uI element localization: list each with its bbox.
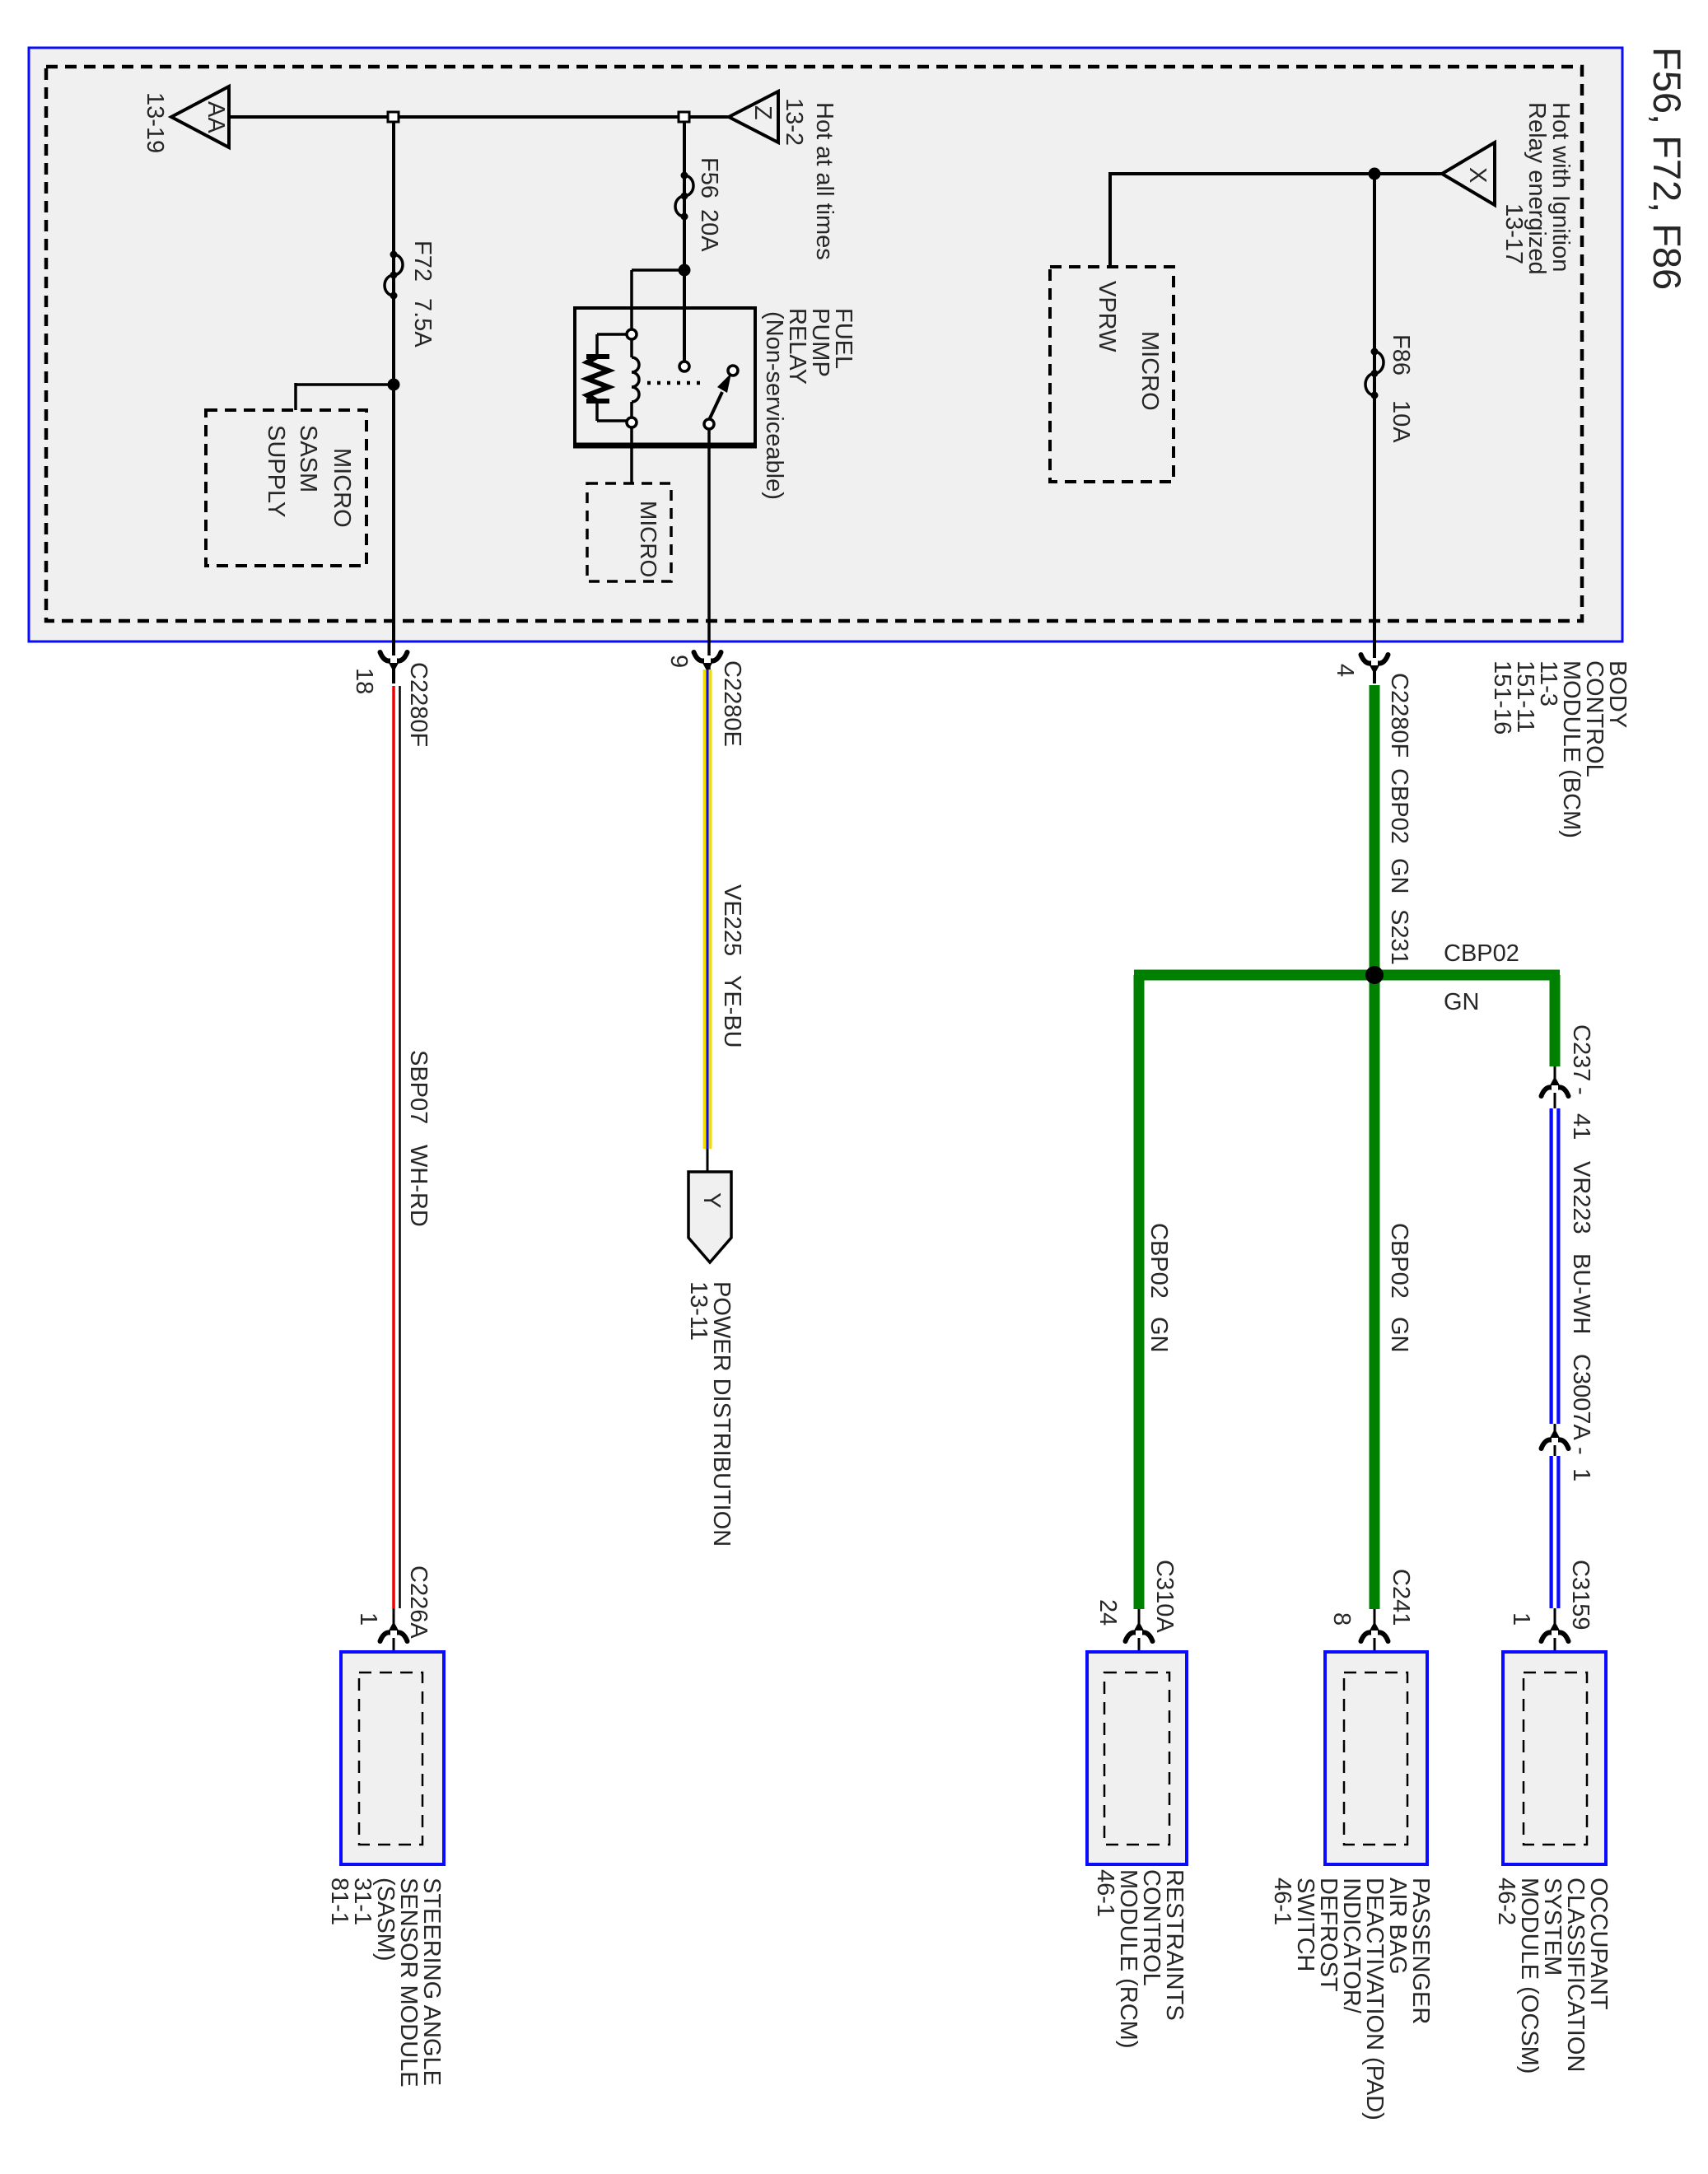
svg-text:F56, F72, F86: F56, F72, F86 [1645, 47, 1689, 290]
svg-text:C3007A: C3007A [1568, 1354, 1594, 1440]
wire CBP02 GN to C237 [1550, 975, 1561, 1066]
wire SBP07 WH-RD [394, 686, 432, 1672]
svg-text:C226A: C226A [405, 1565, 432, 1639]
module: STEERING ANGLE SENSOR MODULE (SASM) [341, 1652, 444, 1864]
fuse F86 10A [1365, 334, 1414, 443]
svg-text:13-11: 13-11 [685, 1281, 712, 1341]
module: PASSENGER AIR BAG DEACTIVATION (PAD) INDICATOR/DEFROST SWITCH [1325, 1652, 1427, 1864]
svg-text:GN: GN [1146, 1317, 1172, 1353]
svg-text:CBP02: CBP02 [1386, 1223, 1412, 1299]
svg-text:46-1: 46-1 [1092, 1869, 1118, 1917]
svg-text:13-19: 13-19 [142, 92, 168, 153]
svg-text:46-2: 46-2 [1493, 1878, 1519, 1925]
svg-text:SBP07: SBP07 [405, 1050, 432, 1124]
relay coil [627, 329, 639, 427]
junction (relay coil tap) [679, 264, 691, 277]
fuse F72 7.5A [385, 240, 436, 348]
MICRO (relay driver) box [587, 483, 671, 581]
wire: F56 branch down [683, 122, 686, 362]
svg-text:151-16: 151-16 [1489, 660, 1515, 735]
svg-text:MICRO: MICRO [329, 448, 355, 528]
svg-text:1: 1 [1508, 1612, 1534, 1626]
svg-text:VPRW: VPRW [1094, 281, 1120, 352]
svg-text:Y: Y [698, 1192, 725, 1208]
MICRO SASM SUPPLY box [206, 410, 366, 566]
module label SASM [326, 1878, 445, 2088]
wire VR223 BU-WH (upper) [1555, 1108, 1594, 1424]
fuse F56 20A [675, 157, 722, 252]
node label POWER DISTRIBUTION 13-11 [685, 1281, 735, 1547]
power feed triangle AA (to 13-19) [142, 86, 229, 153]
svg-text:Relay energized: Relay energized [1524, 102, 1550, 275]
svg-text:YE-BU: YE-BU [719, 975, 745, 1048]
svg-text:CBP02: CBP02 [1444, 940, 1519, 967]
wire: coil feed [632, 270, 684, 330]
relay armature dotted link [647, 381, 707, 385]
svg-text:C241: C241 [1388, 1569, 1414, 1626]
connector C237 pin 41 [1542, 1024, 1595, 1140]
module: RESTRAINTS CONTROL MODULE (RCM) [1087, 1652, 1187, 1864]
svg-text:AA: AA [203, 101, 229, 133]
svg-text:GN: GN [1386, 858, 1412, 894]
svg-text:VE225: VE225 [719, 884, 745, 956]
svg-text:1: 1 [1568, 1468, 1594, 1481]
svg-text:24: 24 [1094, 1599, 1121, 1626]
wire VE225 YE-BU [707, 669, 745, 1172]
connector C2280F pin 4 [1332, 655, 1412, 758]
relay switch [679, 362, 738, 429]
svg-text:-: - [1568, 1447, 1594, 1455]
svg-text:C2280F: C2280F [405, 662, 432, 747]
junction (F86 tap) [1369, 168, 1381, 180]
svg-text:41: 41 [1568, 1113, 1594, 1140]
svg-text:C310A: C310A [1151, 1560, 1178, 1633]
svg-text:F56: F56 [696, 157, 722, 198]
connector C310A pin 24 [1094, 1560, 1178, 1672]
svg-text:10A: 10A [1388, 400, 1414, 443]
power distribution box (fuse box) [29, 48, 1622, 641]
connector C241 pin 8 [1328, 1569, 1414, 1672]
connector C3007A pin 1 [1542, 1354, 1595, 1481]
node label BODY CONTROL MODULE (BCM) [1489, 660, 1631, 838]
wire CBP02 GN (BCM to splice) [1374, 685, 1412, 975]
module label OCSM [1493, 1878, 1612, 2074]
connector C2280F pin 18 [351, 652, 432, 747]
svg-text:46-1: 46-1 [1269, 1878, 1295, 1925]
svg-text:CBP02: CBP02 [1146, 1223, 1172, 1299]
connector C226A pin 1 [355, 1565, 432, 1641]
svg-text:1: 1 [355, 1612, 381, 1626]
svg-text:Hot at all times: Hot at all times [811, 102, 838, 260]
svg-text:MICRO: MICRO [636, 501, 661, 577]
junction (SASM supply tap) [388, 379, 400, 391]
svg-text:C237: C237 [1568, 1024, 1594, 1081]
svg-text:BU-WH: BU-WH [1568, 1253, 1594, 1334]
svg-text:13-17: 13-17 [1500, 203, 1527, 264]
module label PAD switch [1269, 1878, 1434, 2120]
svg-text:CBP02: CBP02 [1386, 768, 1412, 844]
svg-text:20A: 20A [696, 209, 722, 252]
wire: F72 branch down [392, 122, 395, 683]
svg-text:(Non-serviceable): (Non-serviceable) [761, 311, 787, 500]
wire CBP02 GN horizontal distribution [1134, 970, 1560, 981]
svg-text:S231: S231 [1386, 909, 1412, 965]
connector C2280E pin 9 [665, 652, 745, 747]
svg-text:GN: GN [1444, 989, 1480, 1015]
svg-text:7.5A: 7.5A [409, 298, 436, 348]
junction node (F72 tap) [388, 112, 399, 122]
module: OCCUPANT CLASSIFICATION SYSTEM MODULE (OCSM) [1503, 1652, 1606, 1864]
svg-text:18: 18 [351, 668, 377, 694]
splice labels CBP02 GN [1444, 940, 1519, 1015]
wire: relay coil to MICRO driver [630, 427, 633, 483]
svg-text:SASM: SASM [295, 425, 321, 492]
svg-text:C3159: C3159 [1567, 1560, 1594, 1630]
svg-text:F72: F72 [409, 240, 436, 282]
wire: F86 branch down [1373, 174, 1376, 683]
svg-text:-: - [1568, 1087, 1594, 1095]
wire CBP02 GN to RCM [1139, 975, 1172, 1609]
power feed triangle Z (Hot at all times, 13-2) [729, 91, 838, 260]
svg-text:GN: GN [1386, 1317, 1412, 1353]
svg-text:VR223: VR223 [1568, 1161, 1594, 1234]
module label RCM [1092, 1869, 1188, 2049]
wire CBP02 GN to PAD switch [1374, 975, 1412, 1609]
wire: tap to MICRO SASM SUPPLY [296, 383, 394, 410]
power feed triangle X (Hot with Ignition Relay energized, 13-17) [1442, 102, 1574, 275]
svg-text:13-2: 13-2 [781, 98, 807, 146]
svg-text:8: 8 [1328, 1612, 1355, 1626]
svg-text:4: 4 [1332, 664, 1358, 677]
wire: ignition feed [1110, 172, 1442, 267]
svg-text:WH-RD: WH-RD [405, 1145, 432, 1227]
relay resistor [586, 334, 627, 421]
wire: hot-at-all-times feed bus [226, 115, 729, 119]
off-page arrow Y (POWER DISTRIBUTION 13-11) [688, 1172, 731, 1262]
connector C3159 pin 1 [1508, 1560, 1594, 1672]
svg-text:Hot with Ignition: Hot with Ignition [1547, 102, 1574, 272]
relay K1 FUEL PUMP RELAY box [573, 308, 856, 500]
MICRO VPRW box [1050, 267, 1174, 482]
svg-text:SUPPLY: SUPPLY [263, 425, 289, 517]
svg-text:Z: Z [749, 105, 776, 120]
splice S231 [1365, 966, 1384, 984]
svg-text:C2280E: C2280E [719, 660, 745, 747]
svg-text:X: X [1464, 167, 1491, 183]
wire VR223 BU-WH (lower) [1550, 1456, 1561, 1608]
svg-text:C2280F: C2280F [1386, 673, 1412, 758]
svg-text:81-1: 81-1 [326, 1878, 352, 1925]
svg-text:F86: F86 [1388, 334, 1414, 376]
svg-text:9: 9 [665, 655, 692, 668]
wire: relay output down [707, 429, 711, 683]
svg-text:MICRO: MICRO [1136, 331, 1163, 411]
junction node (F56 tap) [679, 112, 689, 122]
